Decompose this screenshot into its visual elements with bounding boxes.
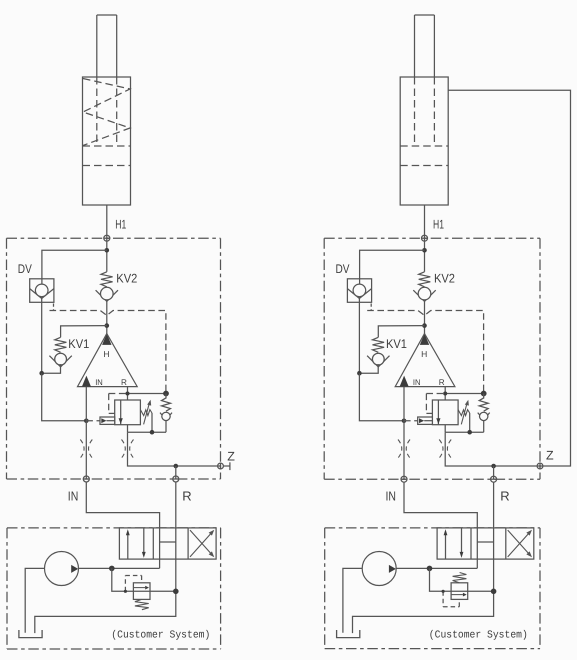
check valve DV ball (35, 284, 48, 297)
pilot line IN node to relief (dashed) (86, 420, 100, 422)
system relief valve flow arrow (133, 587, 145, 589)
pilot line to relief valve (dashed) (426, 393, 445, 395)
svg-text:KV2: KV2 (116, 272, 137, 286)
port IN (83, 478, 90, 480)
relief valve V1 adjust arrow (144, 402, 150, 425)
svg-text:IN: IN (386, 488, 397, 503)
relief valve V1 body (115, 400, 141, 425)
node DV-KV1 junction (357, 371, 362, 376)
relief valve V1 adjust arrow (461, 402, 467, 425)
node DV-KV1 junction (39, 371, 44, 376)
node R tee (126, 392, 130, 396)
system relief valve spring (135, 599, 149, 609)
wire H1 node to DV (42, 250, 107, 284)
check valve KV1 ball (55, 353, 67, 365)
wire H1 port to KV2 (106, 205, 108, 272)
wire node to relief valve (112, 568, 134, 591)
check valve KV2 ball (418, 287, 431, 300)
relief valve V1 pilot box (100, 417, 115, 424)
port Z (220, 463, 222, 470)
check valve KV1 spring (373, 337, 385, 352)
svg-text:R: R (121, 378, 127, 387)
wire H1 node to DV (360, 250, 425, 284)
check valve V2 spring (479, 398, 488, 411)
relief valve V1 pilot arrow (101, 418, 106, 423)
wire KV2 to amplifier (106, 300, 108, 335)
wire R line to Z port (128, 432, 221, 466)
check valve KV2 spring (101, 272, 113, 287)
wire KV1 to node (42, 364, 61, 373)
svg-text:H: H (421, 349, 427, 359)
svg-text:(Customer System): (Customer System) (111, 629, 210, 641)
port IN (401, 478, 408, 480)
node on IN line (84, 419, 89, 424)
check valve DV box (347, 279, 371, 303)
wire node to KV1 (378, 326, 424, 338)
node R tee (443, 392, 447, 396)
wire spring drain (469, 413, 471, 432)
system relief valve spring (453, 573, 467, 583)
amplifier IN port arrow (82, 376, 91, 387)
pilot line tap at DV (dashed) (53, 304, 55, 311)
system relief valve pilot line (dashed) (124, 576, 126, 592)
check valve KV2 ball (101, 287, 114, 300)
wire check valve V2 to drain (165, 421, 167, 433)
directional valve left position arrows (445, 535, 447, 560)
node below H1 (105, 248, 110, 253)
svg-text:Z: Z (227, 449, 235, 463)
directional valve body (437, 528, 534, 559)
check valve KV2 spring (419, 272, 431, 287)
orifice B2 (dashed, on R line) (439, 440, 443, 459)
node R line junction (173, 589, 179, 595)
wire KV2 to amplifier (424, 300, 426, 335)
cylinder rod (414, 15, 416, 77)
check valve KV1 spring (55, 337, 67, 352)
orifice B2 (dashed, on R line) (122, 440, 126, 459)
wire DV to KV1 node (41, 297, 43, 374)
check valve V2 ball (480, 412, 488, 420)
check valve V2 spring (162, 398, 171, 411)
directional valve centre link (160, 541, 176, 543)
svg-text:KV2: KV2 (434, 272, 455, 286)
system relief valve body (451, 583, 468, 600)
check valve V2 ball (162, 412, 170, 420)
wire R line to Z port (445, 432, 540, 466)
cylinder piston (dashed) (83, 145, 131, 147)
relief valve V1 body (432, 400, 458, 425)
system relief valve flow arrow (451, 594, 463, 596)
node R branch (491, 464, 496, 469)
svg-text:H: H (103, 349, 109, 359)
wire DV node to IN line (359, 373, 404, 421)
relief valve V1 spring (458, 410, 470, 416)
node R line junction (491, 589, 497, 595)
wire amplifier IN to IN port (85, 387, 87, 479)
orifice B1 (dashed, on IN line) (398, 440, 402, 459)
wire pump outlet (396, 567, 477, 569)
pilot line IN node to relief (dashed) (404, 420, 418, 422)
node pilot junction (481, 391, 487, 397)
wire node to relief valve (430, 568, 452, 591)
wire relief to R node (133, 590, 175, 592)
wire R return line (35, 482, 176, 633)
wire spring drain (151, 413, 153, 432)
wire pump suction (343, 568, 362, 632)
relief valve V1 flow arrow (120, 400, 122, 425)
tank T1 (337, 630, 360, 638)
svg-text:H1: H1 (115, 218, 126, 232)
wire relief valve outlet (127, 425, 129, 433)
wire node to KV1 (61, 326, 107, 338)
check valve V2 seat (160, 413, 172, 420)
wire pump outlet (79, 567, 160, 569)
check valve DV seat (347, 289, 371, 299)
wire relief valve outlet (444, 425, 446, 433)
wire H1 port to KV2 (424, 205, 426, 272)
pilot line tap at DV (dashed) (370, 304, 372, 311)
svg-text:(Customer System): (Customer System) (429, 629, 528, 641)
port H1 (421, 237, 428, 239)
wire amplifier IN to IN port (403, 387, 405, 480)
amplifier U1 (booster triangle) (395, 334, 455, 387)
pilot line DV to relief (dashed) (50, 311, 166, 394)
port Z (539, 463, 541, 470)
directional valve crossed position (190, 532, 213, 557)
wire R tee (445, 393, 484, 395)
check valve DV ball (353, 284, 366, 297)
relief valve V1 pilot arrow (419, 418, 424, 423)
amplifier H port arrow (420, 334, 429, 345)
node KV1 branch (422, 323, 427, 328)
svg-text:DV: DV (18, 262, 33, 276)
wire pump suction (25, 568, 44, 632)
node spring drain junction (467, 430, 472, 435)
pilot line DV to relief (dashed) (367, 311, 483, 394)
wire node to R port (493, 466, 495, 479)
svg-text:KV1: KV1 (386, 337, 407, 351)
relief valve V1 pilot box (418, 417, 433, 424)
check valve KV2 seat (96, 290, 118, 301)
check valve KV1 seat (49, 356, 71, 367)
svg-text:R: R (439, 378, 445, 387)
amplifier U1 (booster triangle) (78, 334, 138, 387)
port H1 (103, 237, 110, 239)
cylinder rod (96, 15, 98, 77)
svg-text:IN: IN (413, 378, 421, 387)
cylinder rod (hidden, dashed) (414, 77, 416, 146)
wire KV1 to node (359, 364, 378, 373)
customer system enclosure (dash-dot) (7, 527, 221, 529)
pump P1 (45, 552, 79, 586)
directional valve crossed position (508, 532, 531, 557)
pilot line to relief valve (dashed) (109, 393, 128, 395)
port R (490, 478, 497, 480)
node pump outlet (427, 566, 433, 572)
directional valve body (119, 528, 216, 559)
wire R tee (128, 393, 167, 395)
svg-text:IN: IN (68, 488, 79, 503)
wire node to R port (175, 466, 177, 479)
node R branch (174, 464, 179, 469)
check valve DV seat (30, 289, 54, 299)
wire DV node to IN line (42, 373, 87, 421)
node on IN line (402, 419, 407, 424)
control block enclosure (dash-dot) (7, 237, 221, 239)
system relief valve pilot line (dashed) (442, 591, 444, 607)
cylinder body (400, 77, 448, 205)
check valve V2 seat (478, 413, 490, 420)
wire amplifier R down (127, 387, 129, 400)
node below H1 (422, 248, 427, 253)
directional valve centre link (477, 541, 493, 543)
wire IN port to valve (404, 482, 477, 568)
wire IN port to valve (86, 482, 159, 568)
amplifier IN port arrow (400, 376, 409, 387)
directional valve left position arrows (127, 535, 129, 560)
svg-text:KV1: KV1 (68, 337, 89, 351)
cylinder rod (hidden, dashed) (96, 77, 98, 146)
customer system enclosure (dash-dot) (325, 527, 540, 529)
blind plug at Z (223, 465, 230, 467)
wire DV to KV1 node (358, 297, 360, 374)
amplifier H port arrow (102, 334, 111, 345)
orifice B1 (dashed, on IN line) (80, 440, 84, 459)
check valve KV1 ball (372, 353, 384, 365)
wire amplifier R down (444, 387, 446, 400)
feedback line cylinder to Z (448, 90, 570, 466)
wire check valve V2 to drain (483, 421, 485, 433)
wire R return line (353, 482, 494, 633)
pump P1 (362, 552, 396, 586)
system relief valve body (133, 583, 150, 600)
node spring drain junction (150, 430, 155, 435)
relief valve V1 flow arrow (437, 400, 439, 425)
check valve DV box (30, 279, 54, 303)
svg-text:IN: IN (95, 378, 103, 387)
svg-text:DV: DV (336, 262, 351, 276)
wire relief to R node (451, 590, 494, 592)
cylinder body (83, 77, 131, 205)
relief valve V1 spring (140, 410, 152, 416)
check valve KV1 seat (367, 356, 389, 367)
tank T1 (19, 630, 42, 638)
cylinder internal spring (dashed) (83, 79, 130, 146)
control block enclosure (dash-dot) (324, 237, 540, 239)
svg-text:R: R (182, 488, 191, 503)
svg-text:H1: H1 (433, 218, 444, 232)
svg-text:Z: Z (546, 449, 554, 463)
node pilot junction (163, 391, 169, 397)
check valve KV2 seat (413, 290, 435, 301)
port R (172, 478, 179, 480)
node pump outlet (109, 566, 115, 572)
cylinder piston (dashed) (400, 145, 448, 147)
svg-text:R: R (500, 488, 509, 503)
node KV1 branch (105, 323, 110, 328)
